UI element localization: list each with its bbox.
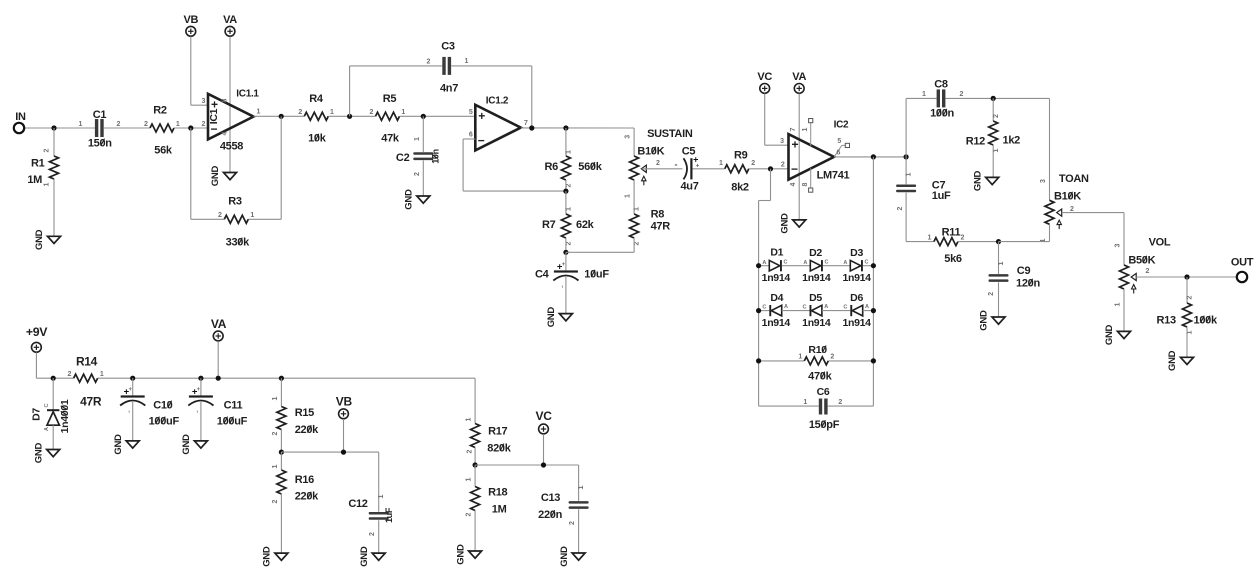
resistor R12 — [989, 121, 998, 145]
pin 1 stub IC2 — [810, 123, 812, 147]
wire C3 branch — [349, 66, 351, 116]
svg-text:C1: C1 — [93, 109, 107, 121]
svg-text:1: 1 — [79, 121, 83, 128]
svg-text:1: 1 — [100, 371, 104, 378]
resistor R8 — [630, 214, 639, 238]
junction node right rail row2 — [871, 308, 876, 313]
svg-text:1: 1 — [414, 137, 421, 141]
resistor R2 — [150, 124, 174, 132]
svg-text:56k: 56k — [154, 144, 173, 156]
svg-text:−: − — [791, 162, 798, 176]
resistor R17 — [471, 424, 480, 448]
wire VA to rail — [217, 341, 219, 378]
svg-text:D2: D2 — [809, 247, 822, 259]
svg-text:VB: VB — [336, 394, 353, 408]
resistor R11 — [934, 238, 958, 246]
ground GND C4 — [559, 314, 572, 321]
svg-text:VA: VA — [223, 14, 237, 26]
svg-text:5: 5 — [837, 138, 841, 145]
wire R1 top — [53, 128, 55, 156]
svg-text:1: 1 — [998, 261, 1005, 265]
capacitor C4 — [554, 270, 578, 272]
svg-text:2: 2 — [68, 371, 72, 378]
port IN — [14, 123, 24, 133]
svg-text:R11: R11 — [942, 226, 961, 238]
svg-text:GND: GND — [359, 546, 370, 567]
capacitor C11 — [189, 395, 213, 397]
ground GND R18 — [469, 551, 482, 558]
svg-text:1n914: 1n914 — [802, 317, 831, 329]
svg-text:C2: C2 — [396, 152, 410, 164]
junction node C11 — [198, 376, 203, 381]
wire IC1.1 output — [254, 115, 305, 117]
wire R15 bottom — [280, 430, 282, 453]
svg-text:R18: R18 — [488, 487, 507, 499]
wire VA through IC2 to ground — [798, 94, 800, 220]
resistor R14 — [74, 374, 98, 382]
svg-text:+: + — [211, 98, 218, 112]
svg-text:100n: 100n — [930, 108, 954, 120]
wire C6 row — [759, 405, 819, 407]
svg-text:1: 1 — [928, 234, 932, 241]
supply VA bottom — [213, 331, 223, 341]
svg-text:47R: 47R — [651, 221, 671, 233]
svg-text:R4: R4 — [309, 93, 324, 105]
junction node R9/diodes — [768, 166, 773, 171]
wire power rail — [36, 377, 73, 379]
wire VC row — [475, 464, 578, 466]
svg-text:A: A — [44, 427, 50, 431]
svg-text:A: A — [762, 260, 766, 266]
svg-text:1: 1 — [625, 194, 632, 198]
svg-text:1: 1 — [272, 464, 279, 468]
junction node left rail row2 — [756, 308, 761, 313]
svg-text:1: 1 — [330, 109, 334, 116]
svg-text:1: 1 — [566, 150, 573, 154]
wire VC stem — [543, 434, 545, 465]
svg-text:1: 1 — [272, 396, 279, 400]
wire R9 to IC2 pin2 — [749, 168, 789, 170]
wire IC1.2 output — [521, 127, 634, 129]
svg-text:A: A — [824, 304, 828, 310]
resistor R16 — [277, 470, 286, 494]
junction node C3 return — [529, 125, 534, 130]
op-amp IC2 LM741 — [789, 134, 835, 180]
junction node R2/R3/pin2 — [188, 125, 193, 130]
supply +9V — [32, 342, 42, 352]
svg-text:220k: 220k — [295, 490, 319, 502]
ground GND C2 — [417, 196, 430, 203]
svg-text:R16: R16 — [295, 474, 314, 486]
junction node right rail row1 — [871, 263, 876, 268]
wire C12 branch — [378, 452, 380, 512]
wire R8 bottom to C4 node — [633, 238, 635, 252]
junction node R13/OUT — [1184, 274, 1189, 279]
svg-text:R15: R15 — [295, 407, 314, 419]
svg-text:2: 2 — [466, 512, 473, 516]
junction nodes R10 — [756, 358, 761, 363]
svg-text:R13: R13 — [1157, 314, 1176, 326]
wire rail elbow to R17 — [474, 378, 476, 423]
svg-text:2: 2 — [656, 160, 660, 167]
wire R17 bottom — [474, 448, 476, 466]
svg-text:1: 1 — [634, 207, 641, 211]
svg-text:C3: C3 — [441, 41, 455, 53]
wire R16 to ground — [280, 494, 282, 553]
svg-text:R3: R3 — [228, 195, 242, 207]
svg-text:+: + — [197, 387, 201, 393]
svg-text:B50K: B50K — [1128, 254, 1155, 266]
supply VA — [225, 26, 235, 36]
svg-text:A: A — [865, 304, 869, 310]
svg-text:R17: R17 — [488, 426, 507, 438]
svg-text:VOL: VOL — [1149, 236, 1171, 248]
svg-text:2: 2 — [218, 212, 222, 219]
wire TOAN wiper to VOL — [1062, 212, 1124, 214]
resistor R9 — [725, 165, 749, 173]
wire R10 row — [759, 360, 805, 362]
svg-text:C: C — [803, 304, 807, 310]
svg-text:330k: 330k — [226, 236, 250, 248]
svg-text:2: 2 — [569, 521, 576, 525]
svg-text:2: 2 — [1146, 268, 1150, 275]
resistor R5 — [376, 112, 400, 120]
svg-text:GND: GND — [34, 229, 45, 250]
svg-text:GND: GND — [779, 213, 790, 234]
ground GND VOL — [1118, 331, 1131, 338]
svg-text:1: 1 — [905, 172, 912, 176]
wire diode network left rail — [770, 169, 772, 201]
svg-text:2: 2 — [117, 121, 121, 128]
junction node left rail row1 — [756, 263, 761, 268]
svg-text:3: 3 — [1040, 179, 1047, 183]
svg-text:470k: 470k — [808, 370, 832, 382]
svg-text:3: 3 — [1114, 243, 1121, 247]
svg-text:2: 2 — [960, 91, 964, 98]
wire TOAN bottom to R11 node — [1049, 224, 1051, 241]
svg-text:220n: 220n — [538, 509, 562, 521]
junction node R17/R18/VC — [473, 462, 478, 467]
port OUT — [1237, 272, 1247, 282]
resistor R18 — [471, 487, 480, 511]
diode D5 1n914 — [810, 305, 812, 316]
svg-text:2: 2 — [838, 399, 842, 406]
wire D6 to right rail — [863, 310, 874, 312]
svg-text:4: 4 — [790, 182, 797, 186]
diode D4 1n914 — [759, 310, 770, 312]
wire R18 to ground — [474, 511, 476, 552]
svg-text:1: 1 — [803, 399, 807, 406]
svg-text:VA: VA — [211, 317, 227, 331]
svg-text:GND: GND — [181, 434, 192, 455]
wire C8 branch up — [905, 98, 907, 156]
svg-text:R10: R10 — [808, 344, 827, 356]
svg-text:2: 2 — [897, 206, 904, 210]
ground GND R16 — [275, 553, 288, 560]
capacitor C9 — [989, 274, 1009, 277]
svg-text:2: 2 — [1187, 295, 1194, 299]
svg-text:GND: GND — [979, 310, 990, 331]
svg-text:2: 2 — [566, 183, 573, 187]
junction node C10 — [130, 376, 135, 381]
junction node C7/C8 — [904, 154, 909, 159]
capacitor C8 — [937, 89, 940, 107]
wire VB row — [281, 451, 378, 453]
wire D7 top — [52, 378, 54, 409]
ground GND IC1.1 — [224, 173, 237, 180]
wire C2 top — [422, 116, 424, 152]
junction node R4/R5/C3 — [347, 114, 352, 119]
svg-text:1: 1 — [802, 127, 809, 131]
op-amp IC1.2 — [475, 105, 521, 151]
svg-text:VA: VA — [792, 71, 806, 83]
resistor R10 — [804, 357, 828, 365]
svg-text:A: A — [843, 260, 847, 266]
svg-text:SUSTAIN: SUSTAIN — [647, 128, 693, 140]
svg-text:GND: GND — [404, 189, 415, 210]
wire C9 to ground — [998, 282, 1000, 317]
ground GND C9 — [992, 317, 1005, 324]
wire C4 top — [565, 252, 567, 270]
svg-text:R14: R14 — [76, 354, 98, 368]
svg-text:TOAN: TOAN — [1059, 173, 1089, 185]
svg-text:1: 1 — [466, 477, 473, 481]
wire C12 to ground — [378, 520, 380, 553]
svg-text:+: + — [128, 387, 132, 393]
svg-text:2: 2 — [369, 532, 376, 536]
svg-text:1: 1 — [578, 485, 585, 489]
svg-text:1: 1 — [566, 207, 573, 211]
svg-text:2: 2 — [988, 292, 995, 296]
svg-text:+: + — [478, 109, 485, 123]
junction node R15 — [279, 376, 284, 381]
svg-text:+: + — [562, 262, 566, 268]
svg-text:GND: GND — [1104, 324, 1115, 345]
wire IN to C1 — [24, 127, 95, 129]
svg-text:4n7: 4n7 — [440, 83, 458, 95]
svg-text:R8: R8 — [651, 209, 665, 221]
wire R6 top — [565, 128, 567, 156]
svg-text:2: 2 — [830, 353, 834, 360]
svg-text:2: 2 — [566, 241, 573, 245]
svg-text:−: − — [478, 133, 485, 147]
potentiometer VOL B50K — [1120, 265, 1129, 289]
capacitor C12 — [369, 512, 389, 515]
svg-text:A: A — [803, 260, 807, 266]
svg-text:2: 2 — [1070, 206, 1074, 213]
ground GND D7 — [47, 450, 60, 457]
wire C8 to TOAN pin3 — [1049, 98, 1051, 200]
svg-text:B10K: B10K — [1054, 191, 1081, 203]
wire C2 to ground — [422, 160, 424, 196]
svg-text:150n: 150n — [88, 137, 112, 149]
svg-text:C: C — [762, 304, 766, 310]
svg-text:−: − — [210, 122, 217, 136]
wire R4 to R5 — [328, 115, 375, 117]
svg-text:D7: D7 — [31, 408, 43, 421]
ground GND C12 — [372, 553, 385, 560]
svg-text:3: 3 — [625, 135, 632, 139]
pin 8 stub IC2 — [810, 168, 812, 188]
wire C11 to ground — [200, 402, 202, 441]
wire R15 top — [280, 378, 282, 406]
svg-text:IC1.2: IC1.2 — [486, 95, 509, 106]
svg-text:2: 2 — [370, 109, 374, 116]
wire D3 to right rail — [863, 265, 874, 267]
svg-text:1: 1 — [250, 212, 254, 219]
capacitor C7 — [896, 185, 916, 188]
svg-text:10k: 10k — [308, 133, 327, 145]
svg-text:GND: GND — [210, 166, 221, 187]
svg-text:1n914: 1n914 — [762, 272, 791, 284]
resistor R13 — [1183, 303, 1192, 327]
svg-text:GND: GND — [262, 546, 273, 567]
junction node VB — [341, 450, 346, 455]
svg-text:+9V: +9V — [26, 325, 48, 339]
svg-text:1: 1 — [1187, 330, 1194, 334]
potentiometer TOAN B10K — [1045, 200, 1054, 224]
svg-text:6: 6 — [469, 132, 473, 139]
supply VA IC2 — [794, 84, 804, 94]
svg-text:IC1.1: IC1.1 — [236, 89, 259, 100]
svg-text:1k2: 1k2 — [1003, 135, 1021, 147]
svg-text:8: 8 — [802, 182, 809, 186]
wire R2 to IC1.1 pin2 — [174, 127, 208, 129]
svg-text:1n4001: 1n4001 — [59, 399, 71, 433]
svg-text:-: - — [675, 159, 678, 169]
svg-text:IN: IN — [15, 111, 26, 123]
svg-text:1M: 1M — [27, 174, 42, 186]
svg-text:B10K: B10K — [637, 145, 664, 157]
wire R13 top — [1186, 277, 1188, 303]
wire C7 branch down — [905, 157, 907, 184]
wire R1 to ground — [53, 179, 55, 236]
svg-text:GND: GND — [559, 546, 570, 567]
svg-text:2: 2 — [144, 121, 148, 128]
svg-text:560k: 560k — [578, 161, 602, 173]
svg-text:C9: C9 — [1017, 265, 1031, 277]
svg-text:+: + — [791, 138, 798, 152]
svg-text:LM741: LM741 — [817, 170, 850, 182]
ground GND C10 — [126, 441, 139, 448]
svg-text:C: C — [784, 259, 788, 265]
wire D2 to D3 — [823, 265, 851, 267]
svg-text:2: 2 — [961, 234, 965, 241]
svg-text:C4: C4 — [535, 269, 550, 281]
svg-text:100k: 100k — [1194, 314, 1218, 326]
svg-text:1uF: 1uF — [384, 507, 394, 523]
svg-text:R1: R1 — [31, 158, 45, 170]
wire VB to IC1.1 pin3 — [190, 36, 192, 105]
svg-text:C11: C11 — [224, 399, 243, 411]
svg-text:GND: GND — [33, 443, 44, 464]
wire SUSTAIN wiper to C5 — [642, 168, 683, 170]
svg-text:GND: GND — [972, 170, 983, 191]
capacitor C2 — [413, 152, 433, 155]
svg-text:2: 2 — [43, 148, 50, 152]
svg-text:47R: 47R — [80, 394, 102, 408]
resistor R1 — [50, 156, 59, 179]
svg-text:1n914: 1n914 — [762, 317, 791, 329]
wire R6 bottom — [565, 180, 567, 191]
svg-text:4u7: 4u7 — [680, 180, 698, 192]
svg-text:D1: D1 — [770, 246, 783, 258]
wire R3 feedback loop — [190, 128, 192, 219]
junction node R7/C4/R8 — [563, 250, 568, 255]
svg-text:2: 2 — [272, 499, 279, 503]
svg-text:5k6: 5k6 — [944, 253, 962, 265]
ground GND R1 — [48, 236, 61, 243]
svg-text:2: 2 — [751, 160, 755, 167]
junction node D7 — [51, 376, 56, 381]
svg-text:2: 2 — [272, 431, 279, 435]
svg-text:120n: 120n — [1016, 277, 1040, 289]
svg-text:2: 2 — [202, 121, 206, 128]
diode D3 1n914 — [850, 260, 861, 271]
svg-text:GND: GND — [113, 434, 124, 455]
svg-text:820k: 820k — [487, 442, 511, 454]
wire R16 top — [280, 452, 282, 470]
wire out to SUSTAIN pot — [633, 128, 635, 156]
svg-text:8: 8 — [222, 98, 229, 102]
junction node out/diode rail — [871, 154, 876, 159]
svg-text:R6: R6 — [545, 161, 559, 173]
svg-text:7: 7 — [790, 127, 797, 131]
svg-text:1: 1 — [176, 121, 180, 128]
svg-text:100uF: 100uF — [149, 415, 180, 427]
svg-text:1: 1 — [401, 109, 405, 116]
wire R13 to ground — [1186, 327, 1188, 357]
svg-text:3: 3 — [780, 138, 784, 145]
svg-text:1: 1 — [719, 160, 723, 167]
wire IC1.2 feedback loop — [463, 138, 475, 140]
svg-text:1n914: 1n914 — [802, 272, 831, 284]
svg-text:GND: GND — [455, 544, 466, 565]
pin 5 stub IC2 — [835, 145, 842, 156]
svg-text:OUT: OUT — [1231, 256, 1254, 268]
wire C10 to ground — [132, 402, 134, 441]
svg-text:VB: VB — [183, 14, 198, 26]
svg-text:C6: C6 — [817, 386, 830, 398]
svg-text:C13: C13 — [541, 492, 560, 504]
capacitor C13 — [569, 501, 589, 504]
diode D1 1n914 — [759, 265, 770, 267]
junction node VC — [541, 462, 546, 467]
resistor R6 — [561, 156, 570, 180]
junction node IN/R1 — [51, 125, 56, 130]
wire VOL bottom to ground — [1123, 289, 1125, 331]
resistor R15 — [277, 407, 286, 430]
wire VB stem — [343, 419, 345, 452]
svg-text:R12: R12 — [966, 136, 985, 148]
wire C7 to R11 — [905, 193, 907, 242]
wire C4 to ground — [565, 277, 567, 314]
svg-text:A: A — [784, 304, 788, 310]
supply VC bottom — [539, 424, 549, 434]
wire diode network right rail — [872, 157, 874, 406]
potentiometer SUSTAIN B10K — [630, 156, 639, 180]
junction node C8/R12 — [991, 96, 996, 101]
svg-text:1: 1 — [43, 182, 50, 186]
wire VC to IC2 pin3 — [764, 94, 766, 146]
svg-text:1: 1 — [465, 417, 472, 421]
junction node VA rail — [216, 376, 221, 381]
wire R11 to C9 node — [958, 241, 999, 243]
wire IC2 output — [834, 156, 906, 158]
ground GND IC2 — [793, 220, 806, 227]
ground GND C13 — [572, 553, 585, 560]
svg-text:IC2: IC2 — [834, 120, 849, 131]
